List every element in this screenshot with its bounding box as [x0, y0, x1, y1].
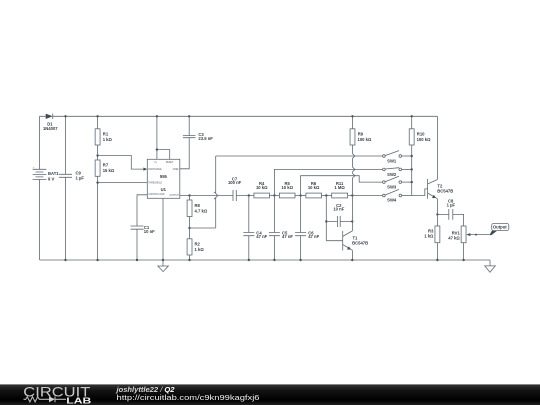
svg-text:GND: GND — [160, 194, 165, 196]
switch SW2 — [383, 168, 412, 177]
svg-text:DISCHARGE: DISCHARGE — [148, 168, 162, 171]
wire T2 base jog — [412, 189, 428, 196]
svg-text:BC547B: BC547B — [352, 241, 368, 246]
wire 555 output — [180, 195, 233, 197]
switch SW4 — [383, 189, 412, 202]
svg-text:1 µF: 1 µF — [447, 203, 456, 208]
resistor R9 — [350, 115, 372, 154]
node R1-R7 junction — [96, 154, 98, 156]
svg-text:R9: R9 — [358, 131, 364, 136]
svg-text:R10: R10 — [417, 131, 425, 136]
potentiometer RV1 — [448, 226, 489, 261]
resistor R11 — [332, 181, 383, 198]
resistor R6 — [306, 181, 332, 198]
node C6 tap / SW3 feed — [299, 194, 301, 196]
capacitor C3 — [180, 115, 213, 169]
battery BAT1 — [33, 167, 60, 181]
node C2/T1 tap — [325, 194, 327, 196]
op-amp U1 555 timer — [147, 159, 180, 198]
svg-text:1 kΩ: 1 kΩ — [424, 234, 434, 239]
wire battery to ground rail — [39, 179, 41, 260]
wire VS stub and bridge — [157, 116, 170, 159]
svg-text:47 nF: 47 nF — [282, 234, 293, 239]
svg-text:BC547B: BC547B — [437, 189, 453, 194]
capacitor C8 — [437, 198, 463, 226]
svg-text:SW4: SW4 — [387, 197, 397, 202]
svg-text:SW3: SW3 — [387, 185, 397, 190]
svg-text:R1: R1 — [103, 131, 109, 136]
svg-text:9 V: 9 V — [48, 176, 54, 181]
svg-text:BAT1: BAT1 — [48, 171, 59, 176]
svg-text:LAB: LAB — [66, 395, 91, 405]
svg-text:CONTROL: CONTROL — [148, 194, 160, 196]
svg-text:10 kΩ: 10 kΩ — [281, 185, 293, 190]
resistor R5 — [279, 181, 306, 198]
capacitor C7 — [228, 176, 254, 201]
svg-text:10 kΩ: 10 kΩ — [256, 185, 268, 190]
transistor T1 — [326, 196, 368, 262]
wire top supply rail — [53, 115, 438, 117]
node C5 tap / SW2 feed — [273, 194, 275, 196]
svg-text:1 kΩ: 1 kΩ — [103, 137, 113, 142]
node C4 tap — [248, 194, 250, 196]
resistor R4 — [254, 181, 280, 198]
switch SW3 — [383, 176, 412, 189]
transistor T2 — [428, 116, 454, 214]
wire threshold — [98, 182, 148, 184]
resistor R1 — [95, 115, 112, 160]
svg-text:10 nF: 10 nF — [333, 207, 344, 212]
svg-text:1 µF: 1 µF — [76, 175, 85, 180]
wire SW3 feed with jog — [301, 176, 383, 196]
svg-text:THRESHOLD: THRESHOLD — [148, 183, 162, 185]
node R8-R2 junction — [188, 227, 190, 229]
capacitor C5 — [269, 196, 293, 262]
svg-text:OUTPUT: OUTPUT — [170, 195, 180, 197]
svg-text:555: 555 — [160, 174, 168, 179]
ground symbol right — [489, 260, 491, 266]
svg-text:100 kΩ: 100 kΩ — [417, 137, 431, 142]
wire R9 vertical with hops — [352, 158, 354, 195]
svg-text:Output: Output — [493, 224, 507, 229]
wire left drop to battery — [40, 116, 46, 169]
wire discharge jog — [98, 156, 144, 170]
capacitor C9 — [59, 115, 84, 261]
svg-text:23.5 nF: 23.5 nF — [198, 136, 213, 141]
node T2 emitter / C8 junction — [436, 213, 438, 215]
svg-text:47 nF: 47 nF — [308, 234, 319, 239]
node Output flag — [490, 223, 509, 235]
resistor R10 — [409, 115, 431, 195]
svg-text:http://circuitlab.com/c9kn99ka: http://circuitlab.com/c9kn99kagfxj6 — [117, 393, 260, 402]
diode D1 — [43, 114, 58, 131]
svg-text:100 kΩ: 100 kΩ — [358, 137, 372, 142]
wire R8 junction to SW1 feed (with hop over output line) — [190, 156, 216, 228]
svg-text:VREF: VREF — [173, 169, 180, 171]
svg-text:1 kΩ: 1 kΩ — [195, 247, 205, 252]
wire bottom ground rail — [40, 259, 490, 261]
ground symbol left — [158, 266, 169, 272]
resistor R3 — [424, 214, 440, 261]
svg-text:47 kΩ: 47 kΩ — [448, 236, 460, 241]
svg-text:47 nF: 47 nF — [256, 234, 267, 239]
svg-text:100 nF: 100 nF — [228, 180, 242, 185]
svg-text:R8: R8 — [195, 203, 201, 208]
svg-text:1N4007: 1N4007 — [43, 126, 58, 131]
switch SW1 — [383, 151, 412, 164]
node switch bus junctions — [411, 155, 413, 157]
wire 555 GND stub — [162, 198, 164, 266]
capacitor C2 — [325, 196, 353, 241]
svg-text:10 nF: 10 nF — [144, 229, 155, 234]
svg-text:1 MΩ: 1 MΩ — [334, 185, 345, 190]
svg-text:R2: R2 — [195, 241, 201, 246]
capacitor C1 — [131, 225, 156, 261]
resistor R7 — [95, 160, 115, 260]
svg-text:10 kΩ: 10 kΩ — [308, 185, 320, 190]
capacitor C6 — [295, 196, 319, 262]
svg-text:4.7 kΩ: 4.7 kΩ — [195, 209, 208, 214]
resistor R2 — [187, 228, 204, 261]
svg-text:R7: R7 — [103, 163, 109, 168]
resistor R8 — [187, 196, 208, 229]
node R11 right junction — [351, 194, 353, 196]
svg-text:U1: U1 — [161, 187, 167, 192]
wire control to C1 — [137, 195, 147, 226]
wire SW1 feed line — [216, 155, 383, 157]
svg-text:15 kΩ: 15 kΩ — [103, 168, 115, 173]
svg-text:SW2: SW2 — [387, 172, 397, 177]
svg-text:SW1: SW1 — [387, 159, 397, 164]
wire SW2 feed — [274, 169, 382, 195]
svg-text:RESET: RESET — [166, 162, 174, 164]
capacitor C4 — [243, 196, 267, 262]
